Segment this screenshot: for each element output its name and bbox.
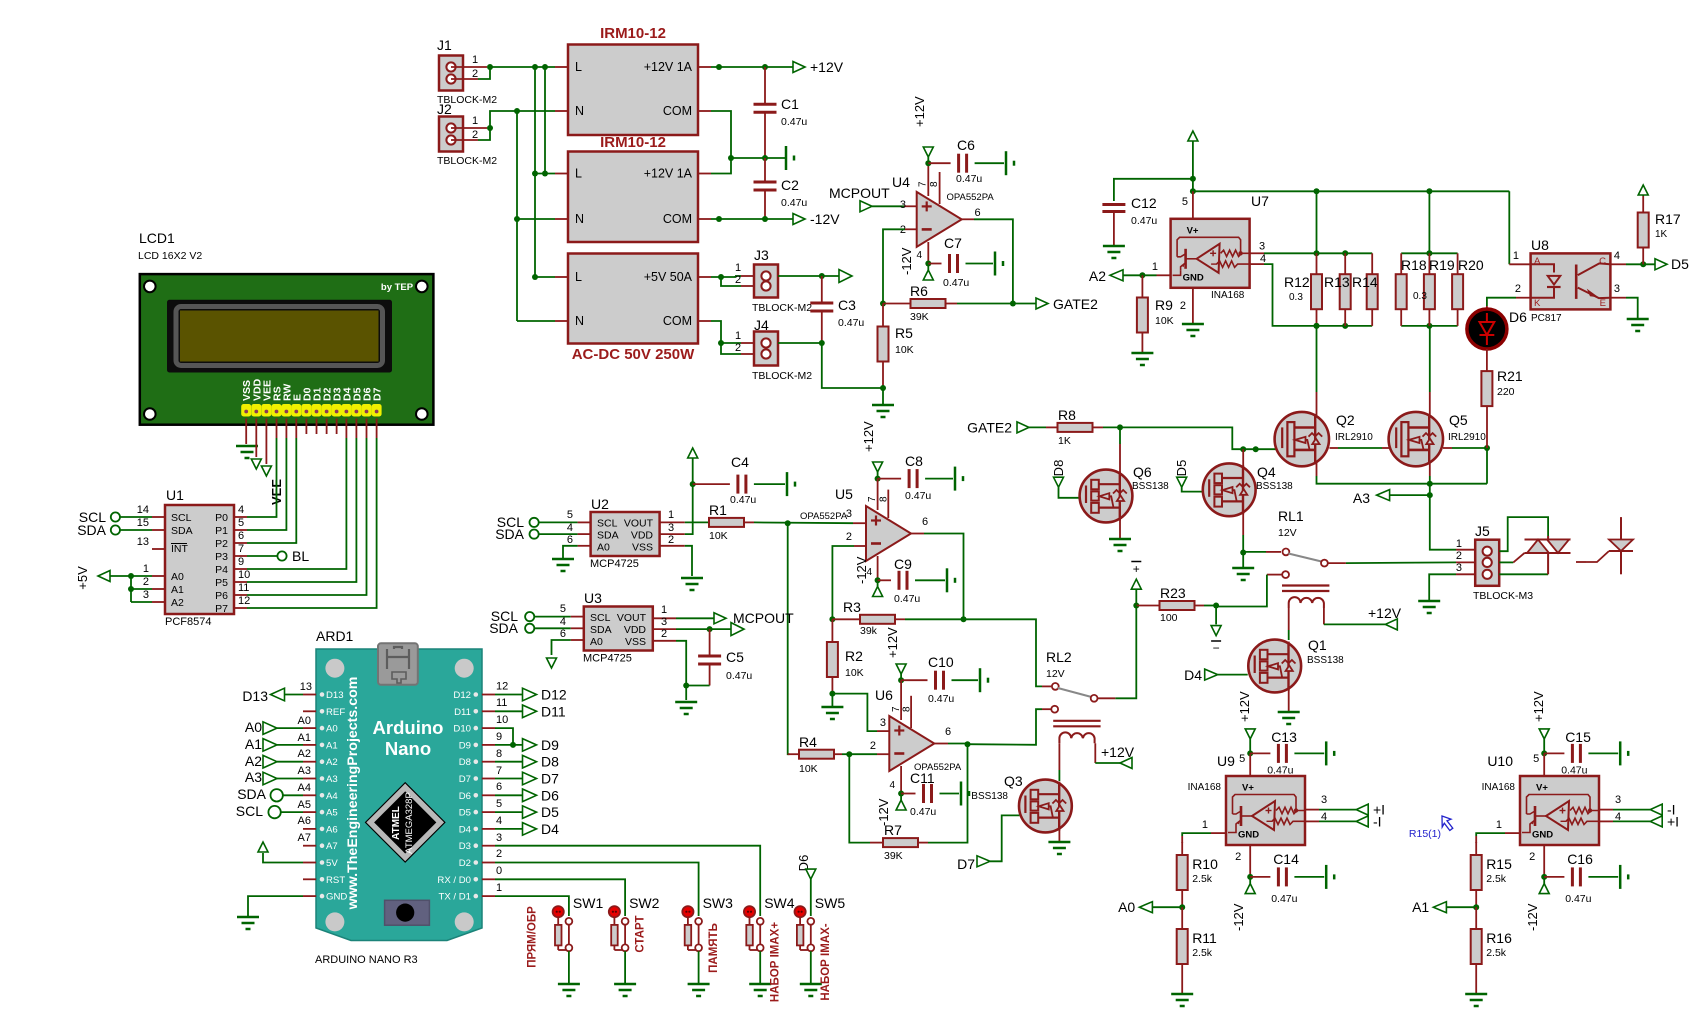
svg-text:Q6: Q6: [1133, 464, 1152, 480]
svg-text:P1: P1: [215, 525, 228, 537]
svg-text:AC-DC 50V 250W: AC-DC 50V 250W: [572, 346, 695, 363]
svg-text:Q4: Q4: [1257, 464, 1276, 480]
svg-text:A7: A7: [326, 841, 338, 852]
transistor Q6 BSS138: [1080, 470, 1133, 523]
svg-text:2: 2: [735, 274, 741, 286]
svg-text:ATMEGA328P: ATMEGA328P: [404, 792, 415, 854]
svg-text:+I: +I: [1667, 813, 1679, 829]
svg-text:VOUT: VOUT: [624, 518, 654, 530]
svg-text:R6: R6: [910, 283, 928, 299]
svg-text:10K: 10K: [845, 667, 864, 679]
svg-text:6: 6: [560, 628, 566, 640]
svg-text:C9: C9: [894, 556, 912, 572]
svg-text:C16: C16: [1567, 851, 1593, 867]
svg-text:Nano: Nano: [385, 738, 431, 759]
svg-text:1: 1: [1496, 819, 1502, 831]
transistor Q5 IRL2910: [1389, 412, 1443, 466]
svg-text:A2: A2: [326, 757, 338, 768]
tag A0: [1139, 902, 1152, 913]
svg-text:SCL: SCL: [236, 803, 263, 819]
svg-text:+12V: +12V: [1237, 691, 1252, 722]
svg-text:A0: A0: [245, 719, 262, 735]
ground Q4: [1242, 553, 1244, 568]
svg-text:RL1: RL1: [1278, 508, 1304, 524]
svg-text:A0: A0: [1118, 899, 1135, 915]
svg-text:C11: C11: [910, 770, 935, 786]
svg-text:10K: 10K: [895, 344, 914, 356]
svg-text:0.47u: 0.47u: [781, 197, 807, 209]
node C3 bottom: [819, 340, 825, 346]
svg-text:ATMEL: ATMEL: [391, 806, 402, 840]
svg-text:+5V: +5V: [75, 566, 90, 590]
node A0: [1179, 904, 1185, 910]
switch SW3: [682, 906, 693, 917]
svg-text:R15: R15: [1486, 856, 1512, 872]
svg-text:INA168: INA168: [1188, 782, 1222, 793]
svg-text:D11: D11: [454, 707, 471, 718]
svg-text:1: 1: [735, 262, 741, 274]
svg-text:3: 3: [1456, 562, 1462, 574]
wire J5 pin1 stub: [1456, 549, 1475, 551]
U2 A0 to ground: [578, 545, 591, 547]
tag D8: [523, 755, 537, 768]
resistor R13: [1344, 253, 1346, 274]
svg-text:IRL2910: IRL2910: [1335, 432, 1373, 443]
svg-text:A0: A0: [590, 636, 603, 648]
svg-text:2: 2: [735, 342, 741, 354]
triac TR1 bottom wire: [1499, 573, 1548, 575]
IC U7 INA168: [1171, 219, 1250, 288]
svg-text:R12: R12: [1284, 274, 1310, 290]
op-amp U5 OPA552PA: [866, 506, 911, 561]
svg-text:TBLOCK-M3: TBLOCK-M3: [1473, 590, 1533, 602]
node M1 out dots: [716, 64, 722, 70]
U3 A0 to down arrow: [571, 639, 584, 641]
node U9 pin2: [1247, 874, 1253, 880]
svg-text:J2: J2: [437, 101, 452, 117]
svg-text:C2: C2: [781, 177, 799, 193]
U5 pin4 stub: [877, 556, 879, 580]
svg-text:3: 3: [846, 508, 852, 520]
U9 pin5 stub: [1249, 753, 1251, 776]
LCD1 mounting holes: [144, 281, 156, 293]
svg-text:2: 2: [472, 129, 478, 141]
svg-text:IRM10-12: IRM10-12: [600, 134, 666, 151]
node R4 right: [846, 751, 852, 757]
Arduino Nano board: [316, 649, 482, 941]
resistor R18: [1400, 253, 1402, 274]
svg-text:1: 1: [1202, 819, 1208, 831]
capacitor C1: [764, 67, 766, 104]
svg-text:0.47u: 0.47u: [838, 317, 864, 329]
resistor R4: [788, 753, 800, 755]
power arrow +12V main: [1188, 131, 1198, 141]
resistor R2: [831, 619, 833, 642]
svg-text:ПАМЯТЬ: ПАМЯТЬ: [708, 923, 720, 973]
svg-text:4: 4: [1615, 811, 1621, 823]
ground J5 pin3: [1418, 600, 1440, 603]
capacitor C7: [928, 263, 941, 265]
svg-text:R5: R5: [895, 325, 913, 341]
svg-text:2: 2: [1456, 550, 1462, 562]
power tag +12V RL2: [1120, 758, 1132, 769]
svg-text:RL2: RL2: [1046, 649, 1072, 665]
wire D2 to SW3: [495, 863, 699, 917]
ground U2 VSS: [681, 577, 703, 580]
tag +5V arrow: [839, 270, 852, 283]
wire M3 COM to J4: [698, 320, 711, 322]
node R17 bottom: [1640, 261, 1646, 267]
svg-text:3: 3: [900, 199, 906, 211]
svg-text:9: 9: [496, 731, 502, 743]
U10 pin4: [1599, 820, 1613, 822]
svg-text:Q5: Q5: [1449, 412, 1468, 428]
svg-text:P3: P3: [215, 551, 228, 563]
svg-text:10K: 10K: [799, 763, 818, 775]
wire Q2 source: [1316, 463, 1318, 476]
wire M2 COM output -12V: [698, 218, 711, 220]
svg-text:1: 1: [1152, 261, 1158, 273]
node R9 top: [1139, 272, 1145, 278]
power arrow 5V arduino: [258, 842, 268, 852]
wire RX/D0 to SW2: [495, 879, 625, 916]
svg-text:4: 4: [889, 780, 895, 791]
svg-text:0.47u: 0.47u: [726, 670, 752, 682]
wire R2 node to U6 pin3: [832, 694, 877, 732]
relay RL2 coil: [1059, 732, 1094, 743]
svg-text:INA168: INA168: [1211, 290, 1245, 301]
node U3 VDD: [707, 626, 713, 632]
svg-text:+12V 1A: +12V 1A: [644, 167, 693, 181]
svg-text:D3: D3: [459, 841, 471, 852]
node U5 pin7: [875, 476, 881, 482]
wire R4 to U6 pin2: [849, 753, 877, 755]
node Q5 source junctions: [1427, 481, 1433, 487]
R18-R20 top bus: [1401, 252, 1457, 254]
svg-text:D5: D5: [1174, 460, 1189, 477]
U9 pin4: [1305, 820, 1319, 822]
svg-text:13: 13: [300, 681, 312, 693]
svg-text:ARD1: ARD1: [316, 628, 354, 644]
U10 pin2: [1543, 845, 1545, 877]
transistor Q1 BSS138: [1248, 640, 1301, 693]
svg-text:C10: C10: [928, 654, 954, 670]
svg-text:1: 1: [1456, 538, 1462, 550]
svg-text:MCP4725: MCP4725: [583, 653, 632, 665]
node R8 out: [1117, 424, 1123, 430]
connector J4: [754, 332, 778, 366]
svg-text:R3: R3: [843, 599, 861, 615]
relay RL1 NO contact: [1282, 571, 1289, 578]
U2 VOUT pin1: [659, 521, 684, 523]
power module IRM10-12 #1: [568, 45, 698, 136]
wire M3 +5V to J3: [698, 276, 711, 278]
node U9 pin5: [1247, 750, 1253, 756]
svg-text:R4: R4: [799, 734, 817, 750]
node U6 pin4: [898, 791, 904, 797]
ground R11: [1171, 993, 1193, 996]
svg-text:D9: D9: [459, 740, 471, 751]
svg-text:3: 3: [880, 717, 886, 729]
capacitor C13: [1250, 752, 1270, 754]
svg-text:C14: C14: [1273, 851, 1299, 867]
ground bar C8: [954, 467, 957, 491]
node dots on L and N buses: [532, 64, 538, 70]
svg-text:5: 5: [1533, 753, 1539, 765]
svg-text:10K: 10K: [1155, 315, 1174, 327]
wire N net from J2: [490, 111, 555, 128]
svg-text:TBLOCK-M2: TBLOCK-M2: [752, 302, 812, 314]
U4 pin8 stub: [939, 172, 941, 204]
svg-text:0.47u: 0.47u: [1565, 893, 1591, 905]
U10 pin1: [1505, 832, 1520, 834]
svg-text:A1: A1: [245, 736, 262, 752]
svg-text:2: 2: [143, 576, 149, 588]
tag A1: [1433, 902, 1446, 913]
module M3 N stub: [517, 320, 555, 322]
svg-text:0.47u: 0.47u: [905, 490, 931, 502]
svg-text:1: 1: [735, 330, 741, 342]
svg-text:НАБОР IMAX-: НАБОР IMAX-: [820, 923, 832, 1000]
relay RL2 NO contact: [1051, 706, 1058, 713]
svg-text:4: 4: [567, 522, 573, 534]
wire M1 COM to gnd node: [698, 110, 711, 112]
svg-text:V+: V+: [1536, 783, 1548, 794]
node J3 out: [819, 273, 825, 279]
svg-text:P4: P4: [215, 564, 228, 576]
svg-text:L: L: [575, 167, 582, 181]
U9 pin3: [1305, 809, 1319, 811]
wire J5 pin3 to ground: [1456, 573, 1475, 575]
wire L net top: [490, 66, 555, 68]
svg-text:0.47u: 0.47u: [956, 173, 982, 185]
wire U4 output: [962, 218, 974, 220]
resistor R21: [1486, 349, 1488, 371]
U1 SCL terminal: [111, 512, 120, 521]
svg-text:12V: 12V: [1278, 527, 1297, 539]
wire LCD D4 to U1 P4: [345, 419, 347, 439]
svg-text:3: 3: [661, 616, 667, 628]
node R1 output: [785, 520, 791, 526]
svg-text:REF: REF: [326, 707, 345, 718]
node R12-R14 buses: [1314, 250, 1320, 256]
svg-text:P7: P7: [215, 603, 228, 615]
svg-text:SDA: SDA: [489, 620, 518, 636]
svg-text:INT: INT: [171, 543, 189, 555]
svg-text:A2: A2: [298, 748, 311, 760]
svg-text:+12V: +12V: [1368, 605, 1402, 621]
svg-text:U7: U7: [1251, 193, 1269, 209]
tag -I: [1650, 804, 1662, 815]
wire R18 bus down to Q5: [1429, 326, 1431, 392]
resistor R15: [1475, 842, 1477, 855]
U3 SDA terminal: [525, 624, 534, 633]
switch SW2: [609, 906, 620, 917]
svg-text:GATE2: GATE2: [1053, 296, 1098, 312]
wire J2 pin1: [451, 127, 487, 129]
LCD1 screen glass: [181, 311, 379, 361]
svg-text:0.47u: 0.47u: [894, 593, 920, 605]
U7 pin5 stub: [1192, 191, 1194, 219]
wire LCD E to U1 P2: [295, 419, 297, 439]
node A1: [1473, 904, 1479, 910]
svg-text:SCL: SCL: [590, 612, 611, 624]
svg-text:P0: P0: [215, 512, 228, 524]
power module IRM10-12 #2: [568, 152, 698, 243]
svg-text:A1: A1: [298, 732, 311, 744]
svg-text:2: 2: [496, 848, 502, 860]
LCD1 pin header: [242, 405, 251, 417]
svg-text:15: 15: [137, 517, 149, 529]
ground U7 pin2: [1182, 323, 1204, 326]
U1 left pin stubs: [152, 516, 165, 518]
svg-text:39k: 39k: [860, 625, 878, 637]
svg-text:+12V 1A: +12V 1A: [644, 60, 693, 74]
svg-text:U6: U6: [875, 687, 893, 703]
svg-text:-I: -I: [1373, 813, 1382, 829]
node R12 bottom bus dots: [1314, 323, 1320, 329]
node C5 bottom junction: [683, 683, 689, 689]
node U10 pin2: [1541, 874, 1547, 880]
svg-text:V+: V+: [1242, 783, 1254, 794]
wire Q2-Q5 gate link: [1330, 447, 1339, 449]
wire rail to U8 pin1: [1508, 191, 1510, 264]
svg-text:5: 5: [1182, 196, 1188, 208]
resistor R23: [1136, 605, 1159, 607]
transistor Q3 BSS138: [1019, 780, 1072, 833]
wire R5 to ground: [882, 388, 884, 404]
svg-text:A6: A6: [326, 824, 338, 835]
power tag +12V M1: [793, 62, 805, 73]
svg-text:D7: D7: [541, 771, 559, 787]
svg-text:COM: COM: [663, 314, 692, 328]
wire RL2 coil left to Q3: [1058, 743, 1060, 770]
wire D10 joins D9: [495, 728, 513, 745]
svg-text:D4: D4: [459, 824, 472, 835]
svg-text:0.47u: 0.47u: [781, 116, 807, 128]
Arduino right pin stubs: [482, 694, 495, 696]
svg-text:7: 7: [891, 706, 902, 712]
resistor R3: [832, 618, 859, 620]
U8 pin3 to ground: [1610, 297, 1626, 299]
ground R5: [872, 404, 894, 407]
svg-text:4: 4: [496, 815, 502, 827]
svg-text:C4: C4: [731, 454, 749, 470]
svg-text:+12V: +12V: [1531, 691, 1546, 722]
capacitor C3: [821, 276, 823, 303]
U8 pin2 wire to D6: [1516, 297, 1531, 299]
ground bar C7: [994, 252, 997, 276]
Arduino left pin stubs: [303, 694, 316, 696]
svg-text:A7: A7: [298, 832, 311, 844]
svg-text:www.TheEngineeringProjects.com: www.TheEngineeringProjects.com: [345, 677, 361, 911]
wire Q4 drain up: [1242, 449, 1244, 467]
svg-text:R11: R11: [1192, 930, 1217, 946]
node U5 pin4: [875, 577, 881, 583]
IC U8 PC817: [1531, 253, 1611, 309]
ground bar C16: [1619, 865, 1622, 889]
svg-text:2.5k: 2.5k: [1486, 947, 1507, 959]
U2 SCL terminal: [530, 518, 539, 527]
svg-text:D8: D8: [541, 754, 559, 770]
wire LCD D5 to U1 P5: [355, 419, 357, 439]
wire R21 bottom down: [1486, 407, 1488, 449]
U3 SCL terminal: [525, 612, 534, 621]
node L junction J1: [487, 64, 493, 70]
wire M2 +12V to gnd node: [698, 173, 711, 175]
svg-text:GND: GND: [1183, 272, 1204, 283]
svg-text:5: 5: [496, 798, 502, 810]
resistor R19: [1428, 253, 1430, 274]
module M3 L stub: [535, 276, 555, 278]
svg-text:A2: A2: [1089, 268, 1106, 284]
svg-text:3: 3: [668, 522, 674, 534]
svg-text:0.3: 0.3: [1289, 292, 1303, 303]
node U4 pin4: [925, 261, 931, 267]
wire L bus vertical: [534, 67, 536, 277]
tag D12: [523, 688, 537, 701]
svg-text:5: 5: [567, 509, 573, 521]
IC U2 MCP4725: [591, 512, 660, 556]
wire U5 pin2: [854, 545, 866, 547]
svg-text:D11: D11: [541, 703, 566, 719]
svg-text:BSS138: BSS138: [971, 791, 1008, 802]
node R6 left: [880, 301, 886, 307]
svg-text:0.47u: 0.47u: [910, 806, 936, 818]
BL terminal on U1 P3: [247, 555, 277, 557]
svg-text:SW5: SW5: [815, 895, 846, 911]
relay RL1 coil: [1289, 597, 1324, 608]
relay RL2 coil core: [1053, 720, 1100, 722]
node R5 bottom: [880, 385, 886, 391]
tag GATE2 output: [1036, 298, 1048, 309]
ground bar C10: [979, 668, 982, 692]
U8 pin4 and R17: [1610, 263, 1626, 265]
svg-text:0.47u: 0.47u: [730, 494, 756, 506]
svg-text:C13: C13: [1271, 729, 1297, 745]
svg-text:8: 8: [879, 496, 890, 502]
svg-text:SW1: SW1: [573, 895, 604, 911]
capacitor C11: [901, 793, 915, 795]
svg-text:ARDUINO NANO R3: ARDUINO NANO R3: [315, 954, 418, 966]
svg-text:R7: R7: [884, 822, 902, 838]
power down arrow VEE: [261, 466, 271, 476]
wire Q6 source to ground: [1119, 519, 1121, 538]
node gnd rail: [728, 155, 734, 161]
svg-text:11: 11: [496, 697, 507, 709]
power arrow +5V above C4: [688, 448, 698, 458]
transistor Q4 BSS138: [1203, 463, 1256, 516]
module M2 N stub: [517, 218, 555, 220]
power arrow plus tag: [1131, 579, 1141, 589]
wire LCD D6 to U1 P6: [366, 419, 368, 439]
svg-text:U2: U2: [591, 496, 609, 512]
ground arduino: [237, 916, 259, 919]
U4 pin4 -12V: [927, 242, 929, 264]
svg-text:Q3: Q3: [1004, 773, 1023, 789]
wire C3 node down to R5 bottom rail: [822, 343, 883, 388]
svg-text:N: N: [575, 212, 584, 226]
svg-text:+12V: +12V: [912, 96, 927, 127]
Arduino USB connector: [378, 643, 418, 685]
tag +I: [1356, 804, 1368, 815]
svg-text:P5: P5: [215, 577, 228, 589]
relay RL1 coil core: [1282, 584, 1329, 586]
svg-text:D8: D8: [1051, 460, 1066, 477]
tag -I: [1356, 816, 1368, 827]
svg-text:-12V: -12V: [1231, 903, 1246, 931]
svg-text:5: 5: [560, 603, 566, 615]
